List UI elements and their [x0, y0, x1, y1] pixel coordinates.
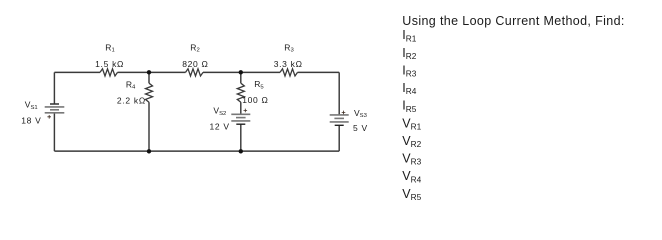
svg-text:12 V: 12 V: [210, 122, 230, 132]
svg-text:100 Ω: 100 Ω: [242, 95, 268, 105]
svg-text:18 V: 18 V: [21, 116, 41, 126]
svg-text:1.5 kΩ: 1.5 kΩ: [95, 59, 124, 69]
svg-text:5 V: 5 V: [353, 123, 368, 133]
svg-text:2.2 kΩ: 2.2 kΩ: [117, 95, 146, 105]
svg-text:3.3 kΩ: 3.3 kΩ: [274, 59, 303, 69]
svg-text:820 Ω: 820 Ω: [182, 59, 208, 69]
svg-text:Using the Loop Current Method,: Using the Loop Current Method, Find:: [402, 14, 624, 28]
